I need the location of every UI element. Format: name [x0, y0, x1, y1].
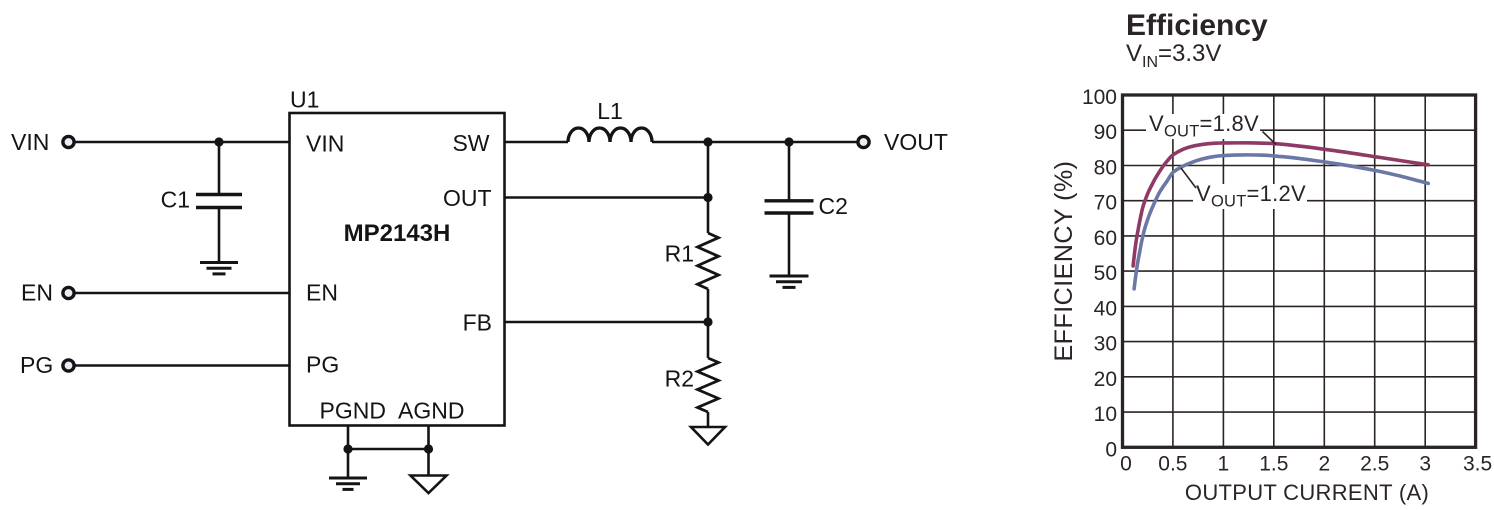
- svg-text:0: 0: [1105, 438, 1117, 461]
- svg-text:R1: R1: [665, 241, 694, 267]
- svg-text:100: 100: [1082, 86, 1117, 109]
- svg-text:L1: L1: [597, 98, 623, 124]
- label VOUT=1.2V background: [1193, 184, 1307, 209]
- svg-text:OUTPUT CURRENT (A): OUTPUT CURRENT (A): [1185, 480, 1429, 505]
- ground (earth) below C2: [770, 276, 809, 287]
- svg-text:3.5: 3.5: [1463, 452, 1492, 475]
- svg-text:2: 2: [1318, 452, 1330, 475]
- wire PG terminal to U1 PG pin: [74, 364, 290, 367]
- junction node on VIN line (C1 tap): [214, 137, 223, 146]
- leader line to 1.2V curve: [1181, 168, 1196, 188]
- svg-text:70: 70: [1094, 192, 1117, 215]
- junction node PGND bus: [343, 444, 352, 453]
- junction node VOUT/C2 tap: [784, 137, 793, 146]
- svg-text:30: 30: [1094, 333, 1117, 356]
- node EN input terminal: [63, 287, 74, 298]
- ground (earth) below C1: [200, 263, 238, 274]
- svg-text:60: 60: [1094, 227, 1117, 250]
- ground (earth) below PGND: [329, 478, 367, 489]
- svg-text:MP2143H: MP2143H: [344, 220, 451, 247]
- junction node SW/R1: [703, 137, 712, 146]
- svg-text:AGND: AGND: [398, 398, 464, 424]
- junction node OUT/R1 top: [703, 193, 712, 202]
- svg-text:90: 90: [1094, 121, 1117, 144]
- wire SW node down to R1: [707, 142, 710, 233]
- capacitor C2: [765, 201, 814, 213]
- x axis tick labels: [1120, 452, 1492, 475]
- wire C2 bottom to ground: [788, 213, 791, 276]
- svg-text:20: 20: [1094, 368, 1117, 391]
- leader line to 1.8V curve: [1263, 132, 1277, 145]
- svg-text:0.5: 0.5: [1158, 452, 1187, 475]
- wire ground bus between PGND and AGND: [348, 448, 429, 451]
- wire L1 to VOUT terminal: [652, 141, 858, 144]
- svg-text:VIN: VIN: [11, 129, 49, 155]
- resistor R1: [698, 233, 719, 289]
- svg-text:EFFICIENCY (%): EFFICIENCY (%): [1050, 161, 1078, 362]
- svg-text:SW: SW: [452, 130, 489, 156]
- wire AGND pin down to ground: [427, 426, 430, 476]
- node VOUT output terminal: [858, 136, 869, 147]
- svg-text:1.5: 1.5: [1259, 452, 1288, 475]
- node PG input terminal: [63, 360, 74, 371]
- curve VOUT=1.8V (maroon): [1133, 143, 1428, 266]
- wire PGND pin down to ground bus: [347, 426, 350, 479]
- junction node FB divider: [703, 317, 712, 326]
- svg-text:80: 80: [1094, 157, 1117, 180]
- ground (signal triangle) below AGND: [411, 476, 447, 494]
- svg-text:Efficiency: Efficiency: [1126, 9, 1268, 42]
- svg-text:10: 10: [1094, 403, 1117, 426]
- svg-text:2.5: 2.5: [1360, 452, 1389, 475]
- ground (signal triangle) below R2: [691, 427, 725, 445]
- svg-text:U1: U1: [290, 87, 319, 113]
- wire R2 bottom to ground: [707, 412, 710, 427]
- svg-text:VOUT: VOUT: [884, 129, 948, 155]
- svg-text:VIN: VIN: [306, 131, 344, 157]
- inductor L1: [568, 128, 652, 142]
- svg-text:VIN=3.3V: VIN=3.3V: [1126, 40, 1221, 71]
- svg-text:C2: C2: [819, 193, 848, 219]
- svg-text:PGND: PGND: [320, 398, 386, 424]
- svg-text:3: 3: [1419, 452, 1431, 475]
- chart plot frame: [1123, 95, 1476, 447]
- wire FB node down to R2: [707, 322, 710, 358]
- svg-text:PG: PG: [306, 352, 339, 378]
- svg-text:R2: R2: [665, 366, 694, 392]
- svg-text:C1: C1: [161, 187, 190, 213]
- wire EN terminal to U1 EN pin: [74, 292, 290, 295]
- wire C1 top: node on VIN line down to C1: [218, 142, 221, 195]
- wire FB pin to node between R1 and R2: [505, 321, 709, 324]
- resistor R2: [698, 358, 719, 412]
- svg-text:0: 0: [1120, 452, 1132, 475]
- svg-text:PG: PG: [20, 352, 53, 378]
- svg-text:EN: EN: [306, 280, 338, 306]
- svg-text:FB: FB: [463, 310, 492, 336]
- junction node AGND bus: [424, 444, 433, 453]
- capacitor C1: [196, 195, 242, 208]
- wire OUT pin to node at R1 top: [505, 196, 709, 199]
- wire VIN terminal to U1 VIN pin: [74, 141, 290, 144]
- curve VOUT=1.2V (blue): [1134, 155, 1428, 289]
- wire C1 bottom to ground: [218, 208, 221, 263]
- svg-text:40: 40: [1094, 297, 1117, 320]
- svg-text:EN: EN: [21, 280, 53, 306]
- svg-text:50: 50: [1094, 262, 1117, 285]
- wire SW pin to inductor L1: [505, 141, 569, 144]
- node VIN input terminal: [63, 136, 74, 147]
- chart grid: [1123, 95, 1476, 447]
- wire C2 top: node on VOUT line down to C2: [788, 142, 791, 201]
- svg-text:OUT: OUT: [443, 185, 492, 211]
- svg-text:1: 1: [1218, 452, 1230, 475]
- op-amp U1 MP2143H IC body: [290, 113, 505, 426]
- y axis tick labels: [1082, 86, 1117, 461]
- label VOUT=1.8V background: [1146, 114, 1260, 139]
- wire R1 bottom to FB node: [707, 289, 710, 322]
